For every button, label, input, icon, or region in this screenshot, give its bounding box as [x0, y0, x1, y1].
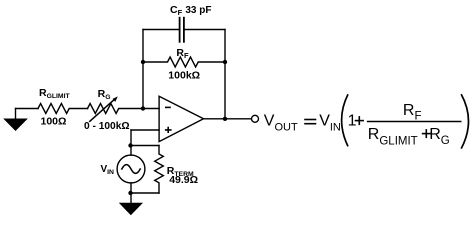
ground left — [3, 119, 28, 132]
svg-text:0 - 100kΩ: 0 - 100kΩ — [84, 121, 130, 132]
resistor RTERM — [155, 146, 164, 194]
source VIN circle — [117, 155, 145, 183]
wire RTERM bottom branch — [131, 192, 159, 194]
wire top feedback left segment — [143, 29, 180, 31]
formula equals — [304, 120, 316, 124]
wire VIN vertical lower — [130, 183, 132, 203]
svg-text:49.9Ω: 49.9Ω — [169, 174, 198, 186]
ground bottom — [119, 203, 143, 216]
wire output — [204, 118, 253, 120]
resistor RF — [143, 57, 225, 67]
wire VIN vertical upper — [130, 130, 132, 155]
formula left parenthesis — [342, 94, 348, 146]
op-amp plus sign — [165, 127, 172, 133]
formula right parenthesis — [461, 94, 468, 148]
node junction output — [223, 117, 227, 121]
wire right vertical feedback — [224, 30, 226, 119]
wire RTERM top branch — [131, 145, 159, 147]
sine wave inside VIN — [122, 165, 140, 174]
node junction inverting input — [141, 106, 145, 110]
node junction VIN bottom — [128, 191, 132, 195]
resistor RG — [88, 104, 160, 114]
formula VOUT = VIN(1 + RF/(RGLIMIT+RG)) — [264, 94, 469, 148]
svg-text:100Ω: 100Ω — [41, 116, 67, 128]
op-amp U1 — [159, 96, 203, 141]
arrowhead of RG wiper — [113, 96, 118, 102]
capacitor CF — [180, 18, 184, 42]
wiper arrow of RG — [90, 99, 115, 121]
ground stem left — [15, 109, 17, 119]
node junction VIN top — [128, 143, 132, 147]
wire left vertical feedback — [142, 30, 144, 109]
node junction RF right — [223, 60, 227, 64]
formula fraction bar — [367, 121, 462, 123]
node junction RF left — [141, 60, 145, 64]
op-amp minus sign — [165, 106, 171, 108]
wire non-inverting input — [131, 129, 159, 131]
wire inverting input from ground — [16, 108, 39, 110]
resistor RGLIMIT — [38, 104, 88, 114]
terminal output circle — [252, 115, 259, 122]
wire top feedback right segment — [184, 29, 225, 31]
svg-text:100kΩ: 100kΩ — [168, 69, 200, 81]
formula denominator plus sign — [422, 129, 431, 138]
svg-text:CF33 pF: CF33 pF — [170, 4, 212, 17]
